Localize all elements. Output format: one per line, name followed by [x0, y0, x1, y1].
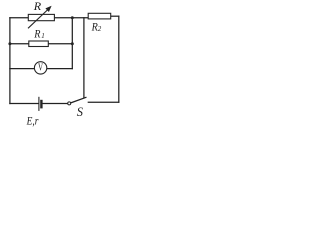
svg-text:R: R	[33, 0, 42, 13]
svg-text:E,r: E,r	[26, 113, 39, 127]
svg-text:S: S	[77, 104, 84, 119]
svg-text:V: V	[38, 61, 43, 73]
svg-text:1: 1	[41, 32, 45, 40]
svg-text:2: 2	[98, 25, 102, 33]
svg-text:R: R	[33, 26, 41, 40]
